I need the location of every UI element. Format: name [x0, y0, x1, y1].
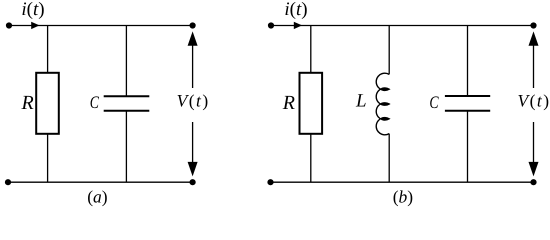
wire R branch lower (a) [47, 134, 49, 182]
voltage arrowhead down (b) [529, 162, 539, 177]
svg-text:L: L [355, 91, 367, 112]
wire C branch upper (b) [467, 26, 469, 97]
svg-text:R: R [20, 92, 33, 114]
svg-text:i(t): i(t) [284, 0, 307, 20]
svg-text:(b): (b) [393, 187, 414, 207]
svg-text:(a): (a) [87, 187, 108, 207]
svg-text:V(t): V(t) [177, 91, 209, 111]
terminal dot bottom-left (b) [267, 179, 273, 185]
inductor L1 (b) [376, 73, 389, 135]
capacitor C2 (b) [445, 96, 490, 111]
wire R branch upper (a) [47, 26, 49, 74]
resistor R1 (a) [36, 73, 59, 134]
terminal dot top-left (b) [268, 22, 274, 28]
voltage arrow upper stem (a) [192, 45, 194, 88]
wire bottom (b) [271, 181, 534, 183]
voltage arrowhead up (b) [529, 31, 539, 45]
resistor R2 (b) [300, 73, 323, 134]
voltage arrowhead down (a) [188, 162, 198, 177]
svg-text:C: C [90, 92, 99, 112]
svg-text:V(t): V(t) [518, 91, 550, 111]
voltage arrow lower stem (a) [192, 122, 194, 163]
svg-text:C: C [429, 92, 438, 112]
capacitor C1 (a) [104, 96, 150, 111]
wire R branch upper (b) [310, 26, 312, 74]
wire top (a) [9, 25, 193, 27]
wire L branch upper (b) [388, 26, 390, 75]
voltage arrowhead up (a) [188, 31, 198, 45]
voltage arrow upper stem (b) [533, 45, 535, 88]
node dot top-right (a) [190, 22, 196, 28]
svg-text:i(t): i(t) [21, 0, 44, 20]
terminal dot top-left (a) [6, 22, 12, 28]
current arrow i(t) (a) [31, 22, 39, 29]
node dot top-right (b) [530, 22, 536, 28]
svg-text:R: R [282, 92, 295, 114]
wire C branch lower (a) [125, 111, 127, 182]
node dot bottom-right (b) [530, 179, 536, 185]
terminal dot bottom-left (a) [5, 179, 11, 185]
wire top (b) [271, 25, 534, 27]
wire R branch lower (b) [310, 134, 312, 182]
current arrow i(t) (b) [294, 22, 302, 29]
wire L branch lower (b) [388, 134, 390, 183]
wire C branch upper (a) [125, 26, 127, 97]
wire C branch lower (b) [467, 111, 469, 182]
voltage arrow lower stem (b) [533, 122, 535, 163]
node dot bottom-right (a) [190, 179, 196, 185]
wire bottom (a) [8, 181, 193, 183]
